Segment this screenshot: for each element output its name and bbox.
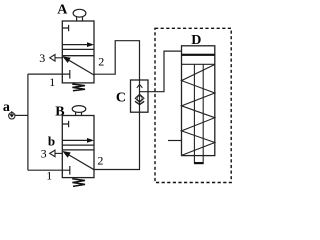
valve A push button bbox=[73, 9, 86, 21]
valve A blocked port T (top box) bbox=[62, 25, 68, 31]
check valve C flow arrow up bbox=[137, 85, 143, 88]
svg-text:3: 3 bbox=[39, 51, 45, 65]
valve B push button bbox=[72, 106, 86, 116]
valve B return spring bbox=[72, 179, 85, 187]
valve B flow arrow (top box) bbox=[62, 138, 94, 143]
wire left rail bbox=[27, 74, 29, 170]
svg-text:C: C bbox=[116, 90, 126, 105]
valve A diagonal arrow 2-3 (bottom box) bbox=[62, 56, 94, 75]
cylinder D piston bbox=[182, 54, 215, 56]
wire branch C to cylinder D bbox=[140, 51, 182, 92]
cylinder D rod end cap bbox=[194, 162, 204, 164]
valve B body bbox=[62, 116, 94, 178]
valve A flow arrow (top box, 1-2 open) bbox=[62, 42, 94, 47]
check valve C ball bbox=[137, 96, 142, 101]
valve A exhaust triangle port 3 bbox=[50, 55, 63, 62]
check valve C spring chevron bbox=[135, 101, 144, 104]
cylinder D vent stub bbox=[168, 140, 182, 142]
cylinder D piston rod bbox=[194, 64, 203, 162]
cylinder D piston lower line bbox=[182, 63, 215, 65]
valve B diagonal arrow 2-3 (bottom box) bbox=[62, 151, 94, 170]
valve A blocked port 1 tick bbox=[69, 70, 71, 79]
svg-text:2: 2 bbox=[97, 154, 103, 168]
node a symbol bbox=[9, 111, 15, 119]
svg-text:a: a bbox=[3, 100, 10, 115]
svg-text:1: 1 bbox=[49, 75, 55, 89]
check valve C box bbox=[131, 80, 149, 112]
svg-text:3: 3 bbox=[41, 147, 47, 161]
wire A2 to C top and down to B2 bbox=[94, 41, 140, 170]
valve B blocked port 1 tick bbox=[69, 166, 71, 175]
cylinder D return spring zigzag bbox=[182, 65, 215, 156]
valve B blocked port T (top box) bbox=[62, 121, 68, 127]
svg-text:2: 2 bbox=[98, 55, 104, 69]
svg-text:b: b bbox=[48, 133, 55, 148]
valve B exhaust triangle port 3 bbox=[50, 150, 63, 157]
wire node a to rail bbox=[15, 114, 28, 116]
svg-text:B: B bbox=[55, 104, 64, 119]
valve A return spring bbox=[72, 84, 85, 91]
wire rail to valve B port 1 bbox=[28, 169, 70, 171]
svg-text:A: A bbox=[57, 3, 68, 18]
cylinder D tube bbox=[182, 46, 215, 156]
wire rail to valve A port 1 bbox=[28, 73, 70, 75]
check valve C seat diamond bbox=[135, 94, 144, 102]
dashed enclosure D bbox=[155, 28, 231, 182]
valve A body bbox=[62, 21, 94, 83]
